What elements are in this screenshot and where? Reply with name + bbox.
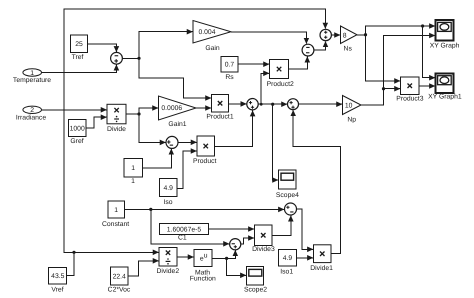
sum S0 (T - Tref) — [111, 52, 123, 64]
wire Np out up to XY Graph in2 — [361, 36, 435, 106]
wire Product1 out to SumA — [229, 103, 247, 105]
wire Iso1 to Divide1 in2 — [297, 257, 314, 259]
wire junction down to Product1 in1 — [139, 58, 211, 98]
scope Scope4 — [276, 170, 299, 199]
gain Gain 0.004 — [193, 21, 231, 52]
wire Ns out to junction — [357, 34, 366, 36]
wire Irradiance to Divide in1 — [42, 109, 107, 111]
svg-text:4.9: 4.9 — [163, 185, 173, 192]
svg-text:Function: Function — [190, 276, 216, 283]
constant C1 1.60067e-5 — [160, 224, 209, 242]
svg-text:8: 8 — [343, 33, 347, 40]
svg-text:2: 2 — [30, 107, 34, 114]
wire S1 out to Ns — [331, 34, 340, 36]
wire S4 out to Divide3 in2 — [241, 238, 254, 244]
wire S3 out down to Divide1 in1 — [297, 209, 314, 249]
constant Tref 25 — [71, 35, 88, 61]
svg-text:1: 1 — [114, 207, 118, 214]
scope Scope2 — [244, 267, 267, 294]
svg-text:Iso1: Iso1 — [280, 268, 293, 275]
sum SB — [288, 99, 299, 110]
wire Divide1 out up to SB bottom — [293, 110, 341, 254]
wire Math Function out to S4 bottom — [212, 250, 235, 258]
svg-text:Constant: Constant — [102, 221, 129, 228]
junction down-branch to Scope4 — [271, 103, 274, 106]
svg-text:Gain: Gain — [205, 45, 220, 52]
divide block Divide3 — [252, 225, 275, 253]
wire Product2 out up to Sum5 bottom — [289, 57, 308, 70]
divide block Divide2 — [156, 248, 179, 275]
product block Product1 — [206, 95, 233, 121]
wire to Product3 in2 — [384, 88, 401, 90]
gain Ns 8 — [341, 26, 358, 52]
junction Vref/loop/Divide2 — [72, 251, 75, 254]
svg-text:u: u — [204, 253, 208, 260]
svg-text:Product: Product — [193, 158, 217, 165]
junction at Divide output — [137, 112, 140, 115]
svg-text:Scope2: Scope2 — [244, 287, 267, 294]
svg-text:Np: Np — [347, 116, 356, 123]
product block Product2 — [267, 60, 294, 88]
scope XY Graph — [430, 20, 460, 49]
sum SA — [247, 99, 258, 110]
junction Ns output — [364, 33, 367, 36]
wire Divide3 out up to Sum3 bottom — [272, 216, 291, 236]
wire Vref up to junction — [67, 252, 74, 275]
wire Tref to Sum0 top — [88, 44, 117, 52]
svg-text:4.9: 4.9 — [283, 255, 293, 262]
wire Constant out to Sum3 left — [125, 208, 285, 210]
divide block Divide1 — [310, 245, 333, 272]
wire down to XY Graph1 in1 — [423, 26, 435, 78]
svg-text:1.60067e-5: 1.60067e-5 — [167, 226, 202, 233]
svg-text:Divide2: Divide2 — [156, 268, 179, 275]
wire C1 out to Divide3 in1 — [209, 228, 255, 230]
wire Gain1 out to Product1 in2 — [196, 107, 211, 109]
constant Vref 43.5 — [49, 268, 67, 294]
svg-text:1: 1 — [131, 178, 135, 185]
constant Gref 1000 — [69, 120, 87, 145]
wire Product3 out to XY Graph1 in2 — [419, 85, 435, 87]
junction Np to Product3 — [382, 87, 385, 90]
svg-text:0.0006: 0.0006 — [161, 105, 182, 112]
wire down to Scope4 — [273, 104, 278, 180]
svg-text:Product2: Product2 — [267, 81, 294, 88]
constant Rs 0.7 — [221, 57, 238, 81]
svg-text:43.5: 43.5 — [51, 273, 64, 280]
svg-text:C1: C1 — [178, 234, 187, 241]
wire S0 out to junction — [122, 57, 139, 59]
svg-text:1: 1 — [131, 165, 135, 172]
gain Np 10 — [343, 96, 362, 124]
inport 2 Irradiance — [16, 106, 46, 121]
wire Iso to Product in2 — [177, 151, 197, 188]
wire Ns junction down to Product3 in1 — [366, 35, 401, 81]
wire block1 to Sum2 bottom — [143, 149, 172, 168]
svg-text:Temperature: Temperature — [13, 77, 51, 84]
svg-text:Product1: Product1 — [206, 113, 233, 120]
wire junction down to Scope2 — [227, 258, 246, 275]
wire C2*Voc to Divide2 in2 — [128, 261, 159, 276]
wire junction to Divide2 in1 — [74, 251, 159, 253]
inport 1 Temperature — [13, 69, 51, 84]
wire Divide2 out to Math Function — [177, 256, 194, 258]
math function block e^u — [190, 250, 216, 283]
constant Iso1 4.9 — [279, 250, 297, 276]
svg-text:Divide1: Divide1 — [310, 265, 333, 272]
wire Ns junction up to XY Graph in1 — [366, 26, 436, 35]
wire Divide out to junction — [126, 113, 139, 115]
svg-text:Gref: Gref — [70, 138, 83, 145]
sum S2 (G/Gref - 1) — [166, 136, 178, 148]
wire Temperature to Sum0 bottom — [42, 65, 117, 73]
sum S3 — [285, 203, 297, 215]
svg-text:Gain1: Gain1 — [168, 121, 186, 128]
gain Gain1 0.0006 — [159, 96, 197, 128]
svg-text:Product3: Product3 — [396, 96, 423, 103]
wire S5 out up to Sum1 bottom — [314, 41, 326, 50]
wire junction down to Sum2 left — [139, 114, 166, 142]
sum S5 (voltage correction) — [302, 44, 314, 56]
wire Rs to Product2 in1 — [238, 63, 269, 65]
product block Product — [193, 136, 217, 165]
svg-text:22.4: 22.4 — [113, 273, 126, 280]
svg-text:C2*Voc: C2*Voc — [108, 286, 131, 293]
svg-text:Vref: Vref — [51, 287, 63, 294]
wire S2 out to Product in1 — [178, 141, 197, 143]
wire junction up to Gain — [139, 32, 193, 59]
svg-text:XY Graph: XY Graph — [430, 42, 460, 49]
constant 1 (block "1") — [124, 159, 143, 186]
svg-text:Irradiance: Irradiance — [16, 114, 46, 121]
wire SA out to SB with branches — [258, 103, 287, 105]
wire Gain out to Sum5 top — [231, 32, 306, 44]
junction up-branch to Product2 — [260, 103, 263, 106]
junction Constant output — [149, 208, 152, 211]
product block Product3 — [396, 77, 423, 103]
svg-text:Divide: Divide — [107, 126, 126, 133]
svg-text:Rs: Rs — [225, 74, 234, 81]
constant C2*Voc 22.4 — [108, 267, 131, 293]
scope XY Graph1 — [428, 74, 462, 101]
wire voltage feedback loop (Vref up left side, across top, down into Sum1) — [64, 9, 325, 252]
svg-text:Scope4: Scope4 — [276, 192, 299, 199]
junction Math Function output — [225, 257, 228, 260]
junction to XY Graph1 in1 — [421, 24, 424, 27]
constant Constant 1 — [102, 201, 129, 228]
svg-text:0.004: 0.004 — [198, 29, 215, 36]
svg-text:25: 25 — [75, 41, 83, 48]
wire junction up to Gain1 — [139, 108, 158, 114]
svg-text:1000: 1000 — [70, 125, 85, 132]
wire SB out to Np — [299, 103, 343, 105]
constant Iso 4.9 — [160, 179, 178, 206]
svg-text:10: 10 — [345, 103, 353, 110]
svg-text:0.7: 0.7 — [225, 62, 235, 69]
wire Product out up to SumA bottom — [215, 111, 253, 147]
sum S1 (V sum) — [320, 29, 331, 40]
divide block Divide — [107, 104, 126, 133]
svg-text:Ns: Ns — [344, 45, 353, 52]
wire junction down to Sum4 left — [151, 209, 229, 243]
sum S4 (e^u - 1) — [230, 239, 241, 250]
svg-text:Divide3: Divide3 — [252, 246, 275, 253]
junction at S0 output — [137, 57, 140, 60]
svg-text:Tref: Tref — [72, 54, 84, 61]
wire up to Product2 in2 — [261, 73, 269, 104]
svg-text:XY Graph1: XY Graph1 — [428, 94, 462, 101]
svg-text:Iso: Iso — [163, 199, 172, 206]
wire Gref to Divide in2 — [86, 117, 107, 128]
